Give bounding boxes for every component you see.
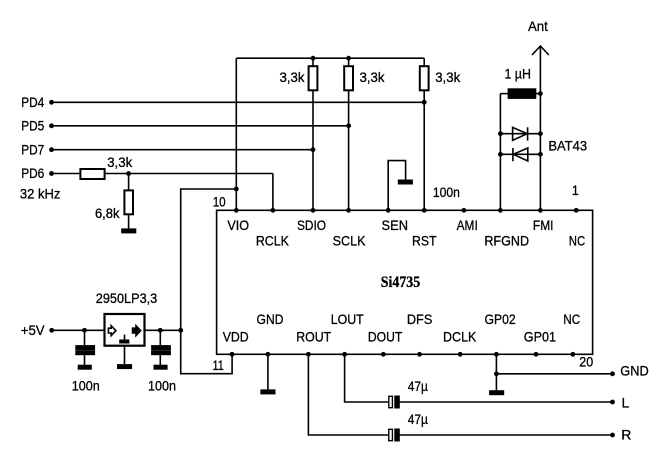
wire ROUT down <box>308 354 388 435</box>
svg-text:NC: NC <box>563 311 580 327</box>
pin 9 RCLK <box>271 208 276 213</box>
node PD7 terminal <box>49 147 54 152</box>
svg-text:R: R <box>621 427 631 443</box>
svg-text:DFS: DFS <box>407 311 433 327</box>
capacitor C1 plate top <box>76 346 94 349</box>
regulator internal ground stub <box>124 335 126 341</box>
wire +5V lead <box>52 329 105 331</box>
svg-text:3,3k: 3,3k <box>280 69 306 85</box>
svg-text:PD7: PD7 <box>21 142 44 158</box>
junction D2 right <box>538 152 543 157</box>
pin 14 LOUT <box>342 352 347 357</box>
wire RCLK vertical <box>272 174 274 211</box>
resistor R3 3,3k body <box>420 66 429 90</box>
junction rail R2 <box>346 56 351 61</box>
node GND terminal <box>610 371 615 376</box>
node PD6 terminal <box>49 171 54 176</box>
diode D1 BAT43 triangle <box>513 127 528 140</box>
svg-text:Si4735: Si4735 <box>381 274 420 291</box>
svg-text:11: 11 <box>213 357 225 373</box>
resistor R2 3,3k lead top <box>348 58 350 66</box>
svg-text:3,3k: 3,3k <box>435 69 461 85</box>
node L terminal <box>610 400 615 405</box>
wire inductor left lead <box>500 93 508 95</box>
capacitor C4 minus plate <box>395 429 399 440</box>
wire GP02 down <box>495 354 497 391</box>
pin 3 RFGND <box>498 208 503 213</box>
junction rail R1 <box>311 56 316 61</box>
svg-text:100n: 100n <box>433 184 460 200</box>
junction PD5/SCLK <box>346 123 351 128</box>
capacitor C3 47u plus plate <box>389 396 393 407</box>
ground bar GND pin <box>261 390 275 393</box>
pin 19 GP01 <box>534 352 539 357</box>
svg-text:3,3k: 3,3k <box>107 154 133 170</box>
junction PD4/RST <box>422 100 427 105</box>
wire diode D1 row <box>500 133 540 135</box>
capacitor C4 47u plus plate <box>389 429 393 440</box>
ground bar under 6,8k <box>122 229 136 232</box>
svg-text:6,8k: 6,8k <box>95 205 120 221</box>
svg-text:2950LP3,3: 2950LP3,3 <box>96 290 158 306</box>
wire SEN to ground <box>388 161 405 211</box>
svg-text:SDIO: SDIO <box>297 217 326 233</box>
antenna arrowhead <box>532 46 549 55</box>
pin 5 RST <box>422 208 427 213</box>
svg-text:20: 20 <box>579 353 593 369</box>
capacitor C1 bottom lead <box>84 354 86 365</box>
svg-text:32 kHz: 32 kHz <box>20 186 61 202</box>
svg-text:1 µH: 1 µH <box>504 66 531 82</box>
svg-text:GP01: GP01 <box>524 328 556 344</box>
svg-text:VDD: VDD <box>223 328 249 344</box>
capacitor C2 plate bottom <box>152 351 170 354</box>
svg-text:GND: GND <box>620 362 649 378</box>
wire 3V3 vertical <box>181 189 237 374</box>
svg-text:RST: RST <box>412 233 437 249</box>
junction D1 left <box>498 131 503 136</box>
resistor R2 3,3k body <box>344 66 353 90</box>
capacitor C3 minus plate <box>395 396 399 407</box>
svg-text:GND: GND <box>257 311 284 327</box>
svg-text:1: 1 <box>572 182 579 198</box>
svg-text:GP02: GP02 <box>485 311 516 327</box>
wire VIO vertical to 3,3k rail <box>235 58 237 210</box>
wire L line <box>399 401 613 403</box>
wire PD7 line <box>52 149 314 151</box>
svg-text:+5V: +5V <box>21 322 45 338</box>
diode D1 cathode bar <box>527 127 529 140</box>
pin 10 VIO <box>234 208 239 213</box>
capacitor C2 100n top lead <box>159 330 161 346</box>
resistor R1 3,3k lead top <box>312 58 314 66</box>
svg-text:DOUT: DOUT <box>368 328 403 344</box>
svg-text:47µ: 47µ <box>408 411 428 427</box>
svg-text:RFGND: RFGND <box>484 233 529 249</box>
svg-text:100n: 100n <box>72 378 100 394</box>
regulator U2 2950LP3,3 body <box>105 314 145 346</box>
wire inductor right lead <box>536 93 541 95</box>
junction C2 <box>158 328 163 333</box>
resistor R5 6,8k body <box>124 190 133 214</box>
wire PD6 to RCLK horizontal <box>105 173 273 175</box>
svg-text:AMI: AMI <box>457 217 478 233</box>
wire LOUT down <box>345 354 389 402</box>
wire RST vertical <box>423 90 425 210</box>
capacitor C2 plate top <box>152 346 170 349</box>
svg-text:FMI: FMI <box>533 217 554 233</box>
svg-text:L: L <box>622 395 630 411</box>
pin 12 GND <box>266 352 271 357</box>
wire 6,8k bottom lead <box>128 214 130 229</box>
svg-text:SCLK: SCLK <box>333 233 367 249</box>
capacitor C1 100n top lead <box>84 330 86 346</box>
wire GND pin lead <box>267 354 269 390</box>
pin 13 ROUT <box>306 352 311 357</box>
diode D2 BAT43 triangle <box>513 148 528 161</box>
svg-text:VIO: VIO <box>227 217 249 233</box>
pin 16 DFS <box>417 352 422 357</box>
wire pullup rail <box>236 57 424 59</box>
wire PD4 line <box>52 101 425 103</box>
junction GND net <box>494 371 499 376</box>
ground bar C1 <box>79 366 92 369</box>
capacitor C2 bottom lead <box>159 354 161 365</box>
wire 6,8k top lead <box>128 174 130 191</box>
pin 4 AMI <box>462 208 467 213</box>
wire RFGND rail vertical <box>499 94 501 211</box>
wire SCLK vertical <box>348 90 350 210</box>
diode D2 cathode bar <box>512 148 514 161</box>
resistor R3 3,3k lead top <box>423 58 425 66</box>
capacitor C1 plate bottom <box>76 351 94 354</box>
resistor R4 3,3k horizontal body <box>80 169 104 179</box>
svg-text:47µ: 47µ <box>408 378 428 394</box>
svg-text:NC: NC <box>569 233 585 249</box>
svg-text:100n: 100n <box>148 378 176 394</box>
wire SDIO vertical <box>312 90 314 210</box>
pin 8 SDIO <box>311 208 316 213</box>
ground bar regulator <box>118 365 132 368</box>
svg-text:DCLK: DCLK <box>443 328 477 344</box>
node PD5 terminal <box>49 123 54 128</box>
ground bar GP02 <box>490 391 504 394</box>
pin 20 NC <box>571 352 576 357</box>
inductor L1 1uH body <box>508 89 535 98</box>
svg-text:Ant: Ant <box>528 18 548 34</box>
svg-text:PD5: PD5 <box>21 118 44 134</box>
regulator input arrow <box>108 326 116 336</box>
pin 18 GP02 <box>494 352 499 357</box>
svg-text:PD4: PD4 <box>21 94 44 110</box>
junction PD7/SDIO <box>311 147 316 152</box>
IC U1 Si4735 body <box>217 210 593 354</box>
svg-text:BAT43: BAT43 <box>548 137 587 153</box>
wire diode D2 row <box>500 153 540 155</box>
antenna arrow ANT <box>539 46 541 210</box>
node R terminal <box>610 433 615 438</box>
junction D2 left <box>498 152 503 157</box>
regulator internal ground bar <box>120 340 129 342</box>
wire R line <box>399 434 613 436</box>
junction C1 <box>82 328 87 333</box>
junction inductor/antenna <box>538 91 543 96</box>
wire GND net to terminal <box>496 373 612 375</box>
pin 15 DOUT <box>381 352 386 357</box>
regulator ground lead <box>124 346 126 365</box>
junction VIO/3V3 <box>234 187 239 192</box>
svg-text:10: 10 <box>213 194 226 210</box>
pin 1 NC <box>574 208 579 213</box>
svg-text:ROUT: ROUT <box>296 328 331 344</box>
svg-text:SEN: SEN <box>382 217 409 233</box>
junction D1 right <box>538 131 543 136</box>
resistor R1 3,3k body <box>309 66 318 90</box>
wire PD5 line <box>52 125 349 127</box>
node +5V terminal <box>49 328 54 333</box>
wire regulator output <box>145 329 181 331</box>
node PD4 terminal <box>49 100 54 105</box>
pin 6 SEN <box>386 208 391 213</box>
ground bar SEN <box>399 180 413 183</box>
svg-text:PD6: PD6 <box>21 165 44 181</box>
svg-text:3,3k: 3,3k <box>360 69 386 85</box>
svg-text:RCLK: RCLK <box>256 233 290 249</box>
pin 11 VDD <box>230 352 235 357</box>
svg-text:LOUT: LOUT <box>331 311 364 327</box>
junction PD6/6,8k <box>126 171 131 176</box>
regulator output arrow <box>133 326 141 336</box>
ground bar C2 <box>154 366 167 369</box>
pin 2 FMI <box>538 208 543 213</box>
junction 3V3 rail <box>178 328 183 333</box>
pin 17 DCLK <box>458 352 463 357</box>
wire PD6 line left <box>52 173 81 175</box>
pin 7 SCLK <box>346 208 351 213</box>
